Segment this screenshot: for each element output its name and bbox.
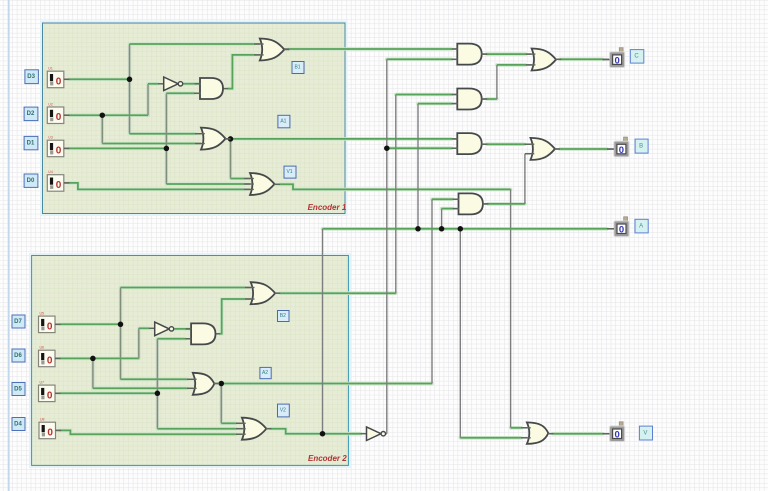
svg-text:0: 0 <box>47 355 53 366</box>
svg-text:V2: V2 <box>280 408 286 414</box>
svg-text:0: 0 <box>47 321 53 332</box>
svg-text:D5: D5 <box>14 386 22 392</box>
svg-text:0: 0 <box>614 56 619 67</box>
wire V1 output to OR V <box>275 184 527 427</box>
svg-text:0: 0 <box>56 145 62 156</box>
svg-text:D6: D6 <box>14 353 22 359</box>
or-gate V1 <box>245 173 280 195</box>
label D6 <box>12 349 25 362</box>
junction D7 <box>118 322 124 328</box>
svg-text:A1: A1 <box>280 119 286 125</box>
wire A line to AND U10 <box>418 104 457 229</box>
svg-text:A2: A2 <box>262 370 268 376</box>
logic toggle D5 <box>39 381 61 402</box>
svg-text:B1: B1 <box>294 65 300 71</box>
wire D7 net <box>55 288 251 380</box>
wire A2 output <box>214 199 458 423</box>
label B2 <box>278 311 290 322</box>
svg-text:U2: U2 <box>48 103 53 107</box>
wire D1 net <box>64 93 250 184</box>
logic probe A <box>607 217 629 237</box>
or-gate B2 <box>245 282 280 304</box>
and-gate U9 <box>452 44 487 65</box>
svg-text:D0: D0 <box>27 178 35 184</box>
label D2 <box>24 107 38 121</box>
junction A line 2 <box>439 226 445 232</box>
or-gate C out <box>526 49 561 71</box>
label D0 <box>24 174 38 187</box>
svg-text:D1: D1 <box>27 141 35 147</box>
junction A1 output <box>228 136 234 142</box>
junction D6 <box>90 356 96 362</box>
svg-text:D7: D7 <box>14 319 22 325</box>
label D3 <box>25 70 39 84</box>
wire D2 net <box>64 84 201 144</box>
wire AND U6 out to B2 <box>216 299 251 334</box>
wire D5 net <box>55 339 242 429</box>
svg-text:Encoder 1: Encoder 1 <box>308 203 347 212</box>
label B1 <box>292 62 304 74</box>
wire D4 net <box>56 430 242 434</box>
svg-text:U8: U8 <box>40 418 45 422</box>
svg-text:B: B <box>639 144 643 150</box>
not-gate U5 <box>155 322 174 336</box>
svg-text:A: A <box>639 224 643 230</box>
svg-text:U3: U3 <box>48 136 53 140</box>
wire NOT3 output riser <box>385 59 458 433</box>
svg-text:0: 0 <box>614 430 619 441</box>
logic toggle D4 <box>39 418 61 439</box>
and-gate U10 <box>452 89 487 110</box>
wire OR V out to display <box>548 433 609 435</box>
or-gate B1 <box>254 39 289 61</box>
or-gate A1 <box>196 128 231 150</box>
wire OR C out to display <box>555 58 610 60</box>
svg-text:V1: V1 <box>286 169 292 175</box>
Encoder 2 block <box>30 254 350 467</box>
label C <box>630 50 644 64</box>
logic toggle D7 <box>39 312 61 333</box>
label A <box>635 219 648 233</box>
junction D3 <box>127 77 133 83</box>
junction A2 output <box>219 381 225 387</box>
svg-text:B2: B2 <box>280 313 286 319</box>
junction D1 <box>164 146 170 152</box>
and-gate U6 <box>186 323 216 344</box>
wire V2 to A display <box>323 229 615 434</box>
or-gate V out <box>521 422 553 444</box>
logic toggle D6 <box>39 346 61 367</box>
svg-text:0: 0 <box>56 112 62 123</box>
wire D6 net <box>55 328 193 388</box>
wire A1 output <box>225 139 457 179</box>
or-gate B out <box>525 138 560 160</box>
logic probe B <box>607 137 629 157</box>
and-gate U11 <box>452 133 487 154</box>
svg-text:U1: U1 <box>48 67 53 71</box>
svg-text:0: 0 <box>47 390 53 401</box>
not-gate U1 <box>164 77 183 91</box>
wire D0 net <box>64 183 250 190</box>
wire AND U10 out <box>482 65 532 99</box>
or-gate A2 <box>187 373 219 395</box>
wire V2 output <box>266 429 367 434</box>
junction D2 <box>100 112 106 118</box>
junction V2 output <box>320 431 326 437</box>
wire NOT1 output <box>183 83 200 85</box>
label V1 <box>284 166 296 178</box>
svg-text:0: 0 <box>619 145 624 156</box>
wire NOT2 output <box>174 328 191 330</box>
and-gate U2 <box>195 78 224 99</box>
wire glow underlay <box>60 44 607 438</box>
label A2 <box>260 367 271 378</box>
svg-text:D3: D3 <box>27 74 35 80</box>
junction A line 1 <box>415 226 421 232</box>
svg-text:0: 0 <box>56 180 62 191</box>
wire AND U11 out <box>482 143 531 145</box>
svg-text:U5: U5 <box>40 312 45 316</box>
label B <box>635 139 648 153</box>
or-gate V2 <box>236 418 271 440</box>
svg-text:V: V <box>643 430 647 436</box>
logic probe V <box>603 422 625 442</box>
label V <box>639 426 652 440</box>
wire AND U2 out to B1 <box>223 55 260 89</box>
logic toggle D3 <box>47 67 69 88</box>
svg-text:U4: U4 <box>48 170 53 174</box>
svg-text:U7: U7 <box>40 381 45 385</box>
logic toggle D1 <box>47 136 69 157</box>
svg-text:C: C <box>634 54 639 60</box>
wire AND U9 out <box>482 53 532 55</box>
label A1 <box>278 115 290 128</box>
svg-text:D2: D2 <box>27 111 35 117</box>
svg-text:0: 0 <box>619 225 624 236</box>
wire B1 output <box>284 48 457 50</box>
svg-text:Encoder 2: Encoder 2 <box>308 454 347 463</box>
label D5 <box>12 383 25 396</box>
wire OR B out to display <box>555 148 614 150</box>
left window edge line <box>8 0 10 491</box>
not-gate U7 <box>367 427 386 441</box>
wire A line to AND U12 <box>442 209 459 229</box>
svg-text:0: 0 <box>56 76 62 87</box>
logic probe C <box>603 48 625 68</box>
Encoder 1 block <box>41 22 347 216</box>
wire D3 net <box>64 44 260 134</box>
junction NOT3 riser <box>384 145 390 151</box>
label V2 <box>278 404 290 417</box>
wire AND U12 out <box>483 154 531 204</box>
svg-text:D4: D4 <box>14 421 22 427</box>
wire A line to OR V <box>460 229 527 438</box>
label D1 <box>24 136 38 149</box>
logic toggle D2 <box>47 103 69 124</box>
logic toggle D0 <box>47 170 69 191</box>
and-gate U12 <box>453 193 488 214</box>
svg-text:0: 0 <box>47 427 53 438</box>
label D7 <box>12 315 25 328</box>
junction D5 <box>155 391 161 397</box>
label D4 <box>12 418 25 431</box>
wire B2 output <box>275 95 457 294</box>
svg-text:U6: U6 <box>40 346 45 350</box>
junction A line 3 <box>458 226 464 232</box>
